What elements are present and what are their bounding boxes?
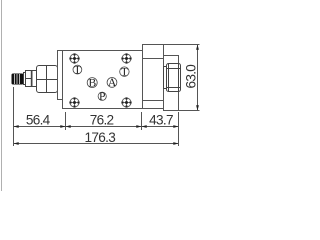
- extension line A (left, x=13.5): [13, 87, 15, 146]
- middle section plate: [143, 45, 164, 109]
- 63.0 top extension line: [164, 44, 200, 46]
- adjustment knob (black knurled): [12, 74, 24, 85]
- dimension line 63.0 vertical: [183, 45, 199, 111]
- svg-text:T: T: [121, 65, 128, 78]
- port T left: [73, 63, 82, 76]
- svg-text:176.3: 176.3: [85, 130, 116, 145]
- hex plug: [167, 64, 181, 92]
- main valve block: [63, 51, 143, 109]
- svg-text:T: T: [74, 63, 81, 76]
- mounting screw bottom-left: [69, 97, 79, 107]
- extension line B (x=65.5): [65, 112, 67, 130]
- svg-text:P: P: [99, 90, 105, 103]
- washer: [32, 71, 37, 87]
- extension line C (x=141.5): [141, 112, 143, 130]
- port T right: [120, 65, 129, 78]
- 63.0 bottom extension line: [179, 110, 200, 112]
- svg-text:43.7: 43.7: [149, 113, 173, 128]
- left end plate: [58, 51, 63, 100]
- plug washer: [164, 67, 167, 89]
- port A: [107, 76, 117, 89]
- svg-text:56.4: 56.4: [26, 113, 51, 128]
- port P: [98, 90, 106, 103]
- mounting screw bottom-right: [121, 97, 131, 107]
- hex valve body: [37, 66, 58, 93]
- dimension line 43.7: [142, 113, 179, 128]
- port B: [87, 76, 97, 89]
- svg-text:B: B: [89, 76, 97, 89]
- svg-text:63.0: 63.0: [183, 64, 198, 89]
- svg-text:A: A: [108, 76, 117, 89]
- dimension line 76.2: [66, 113, 142, 128]
- locknut: [26, 71, 32, 87]
- mounting screw top-right: [121, 53, 131, 63]
- left page border line: [1, 0, 3, 191]
- svg-text:76.2: 76.2: [90, 113, 114, 128]
- knob collar: [24, 73, 26, 85]
- dimension line 56.4: [14, 113, 66, 128]
- extension line D (right, x=178.5): [178, 112, 180, 146]
- mounting screw top-left: [69, 53, 79, 63]
- right end section: [164, 56, 179, 111]
- dimension line 176.3: [14, 130, 179, 145]
